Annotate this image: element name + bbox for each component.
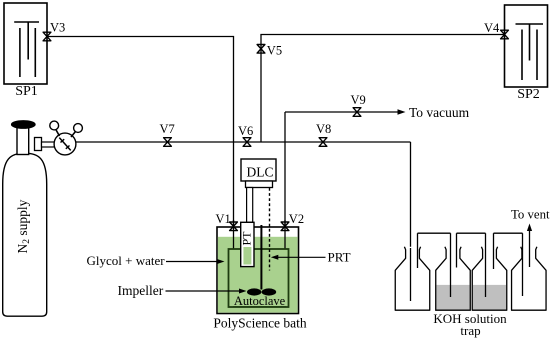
trap bottle B3	[472, 247, 507, 310]
bottle B2 inlet dip tube	[450, 233, 452, 297]
label To vent	[511, 208, 550, 222]
syringe SP1 plunger rod	[27, 22, 29, 60]
svg-text:SP2: SP2	[517, 87, 540, 102]
label V4	[484, 21, 500, 35]
label SP1	[15, 84, 38, 99]
label Glycol + water	[87, 253, 166, 268]
PRT dashed sensor line	[269, 188, 271, 271]
svg-text:Autoclave: Autoclave	[234, 294, 286, 308]
wire vacuum line horizontal	[285, 109, 406, 114]
regulator connector block	[35, 138, 42, 151]
label N2 supply (rotated)	[15, 199, 32, 253]
syringe SP2 barrel left wall	[521, 30, 523, 81]
bottle B2 KOH liquid	[437, 285, 470, 310]
trap bottle B2	[436, 247, 471, 310]
valve V6	[243, 138, 251, 147]
regulator left dial	[50, 121, 59, 130]
connector tube B1 to B2	[418, 232, 451, 234]
valve V9	[353, 108, 361, 117]
label V2	[289, 212, 304, 226]
svg-text:V9: V9	[351, 93, 366, 107]
label V5	[267, 44, 282, 58]
PolyScience bath tank	[217, 227, 299, 314]
wire feed line down into trap bottle 1	[410, 142, 412, 301]
svg-text:V4: V4	[484, 21, 500, 35]
Impeller pointer arrow	[166, 289, 247, 294]
valve V8	[319, 138, 327, 147]
label Autoclave (underlined)	[233, 294, 286, 308]
svg-text:V7: V7	[160, 122, 175, 136]
syringe SP2 plunger bar	[516, 23, 544, 25]
PT pressure transducer tube	[241, 222, 254, 266]
svg-text:V1: V1	[216, 212, 231, 226]
valve V4	[501, 30, 509, 39]
gas cylinder cap	[11, 121, 35, 129]
svg-text:To vent: To vent	[511, 208, 550, 222]
connector tube B3 to B4	[494, 232, 523, 234]
bottle B3 inlet dip tube	[485, 233, 487, 297]
Glycol + water pointer arrow	[166, 259, 225, 264]
wire vertical from top-left corner through V1 to autoclave	[233, 37, 235, 250]
svg-text:N2 supply: N2 supply	[15, 199, 32, 253]
valve V1	[230, 222, 238, 231]
gas cylinder neck	[17, 127, 29, 155]
svg-text:V2: V2	[289, 212, 304, 226]
svg-text:V6: V6	[238, 124, 253, 138]
PRT pointer arrow	[271, 255, 326, 260]
valve V2	[281, 222, 289, 231]
impeller blade right	[262, 288, 277, 295]
gas cylinder body	[3, 153, 47, 316]
DLC controller box	[241, 159, 276, 181]
wire vertical from top-right corner through V5 to main line	[260, 35, 262, 143]
label PRT	[328, 250, 351, 265]
svg-text:PolyScience bath: PolyScience bath	[213, 316, 307, 331]
wire V1 branch over bath (redraw over green)	[233, 220, 235, 250]
regulator gauge body	[54, 133, 76, 155]
syringe pump SP1 box	[4, 3, 47, 84]
svg-text:Impeller: Impeller	[118, 283, 164, 298]
regulator right dial	[74, 124, 83, 133]
syringe pump SP2 box	[505, 5, 548, 87]
svg-text:DLC: DLC	[247, 165, 274, 180]
svg-text:Glycol + water: Glycol + water	[87, 253, 166, 268]
valve V5	[257, 45, 265, 54]
syringe SP2 barrel right wall	[536, 30, 538, 81]
syringe SP1 plunger bar	[14, 21, 39, 23]
svg-text:V5: V5	[267, 44, 282, 58]
label To vacuum	[409, 105, 470, 120]
svg-text:V8: V8	[316, 122, 331, 136]
wire from top-right corner to V4	[260, 34, 504, 36]
wire V2 branch over bath (redraw over green)	[284, 220, 286, 250]
impeller blade left	[247, 288, 261, 295]
label V7	[160, 122, 175, 136]
impeller shaft	[260, 225, 262, 290]
label V1	[216, 212, 231, 226]
DLC stem column	[247, 188, 253, 223]
svg-text:PRT: PRT	[328, 250, 351, 265]
bath glycol+water fill	[218, 237, 298, 313]
wire main line from regulator to down-corner	[76, 141, 411, 143]
bottle B1 inlet dip tube (feed continues)	[410, 248, 412, 301]
wire vertical vacuum branch through V2 to autoclave	[284, 112, 286, 250]
regulator right dial stem	[71, 132, 76, 138]
trap bottle B4	[512, 247, 547, 310]
bottle B1 outlet tube	[417, 233, 419, 268]
syringe SP1 barrel left wall	[19, 28, 21, 77]
label Impeller	[118, 283, 164, 298]
DLC pedestal	[246, 181, 273, 188]
regulator gauge needle	[59, 138, 70, 151]
syringe SP1 barrel right wall	[34, 28, 36, 77]
label V6	[238, 124, 253, 138]
wire from V3 to top-left corner	[47, 36, 234, 38]
bottle B4 inlet dip tube	[522, 233, 524, 296]
label PT (rotated)	[239, 231, 253, 246]
regulator pipe to gauge	[42, 142, 55, 147]
svg-text:SP1: SP1	[15, 84, 38, 99]
label SP2	[517, 87, 540, 102]
bottle B3 outlet tube	[493, 233, 495, 269]
bottle B2 outlet tube	[456, 233, 458, 267]
label V3	[50, 21, 65, 35]
label KOH solution trap	[433, 311, 507, 338]
valve V7	[164, 138, 172, 147]
valve V3	[43, 32, 51, 41]
svg-text:PT: PT	[239, 231, 253, 246]
trap bottle B1	[395, 247, 430, 310]
bottle B3 KOH liquid	[473, 285, 506, 310]
label V9	[351, 93, 366, 107]
label DLC	[247, 165, 274, 180]
svg-text:To vacuum: To vacuum	[409, 105, 470, 120]
connector tube B2 to B3	[457, 232, 486, 234]
bottle B4 outlet vent tube with arrow	[527, 224, 532, 268]
syringe SP2 plunger rod	[529, 24, 531, 61]
label V8	[316, 122, 331, 136]
svg-text:trap: trap	[460, 323, 480, 338]
label PolyScience bath	[213, 316, 307, 331]
svg-text:V3: V3	[50, 21, 65, 35]
autoclave vessel	[229, 249, 289, 307]
regulator left dial stem	[56, 130, 60, 137]
